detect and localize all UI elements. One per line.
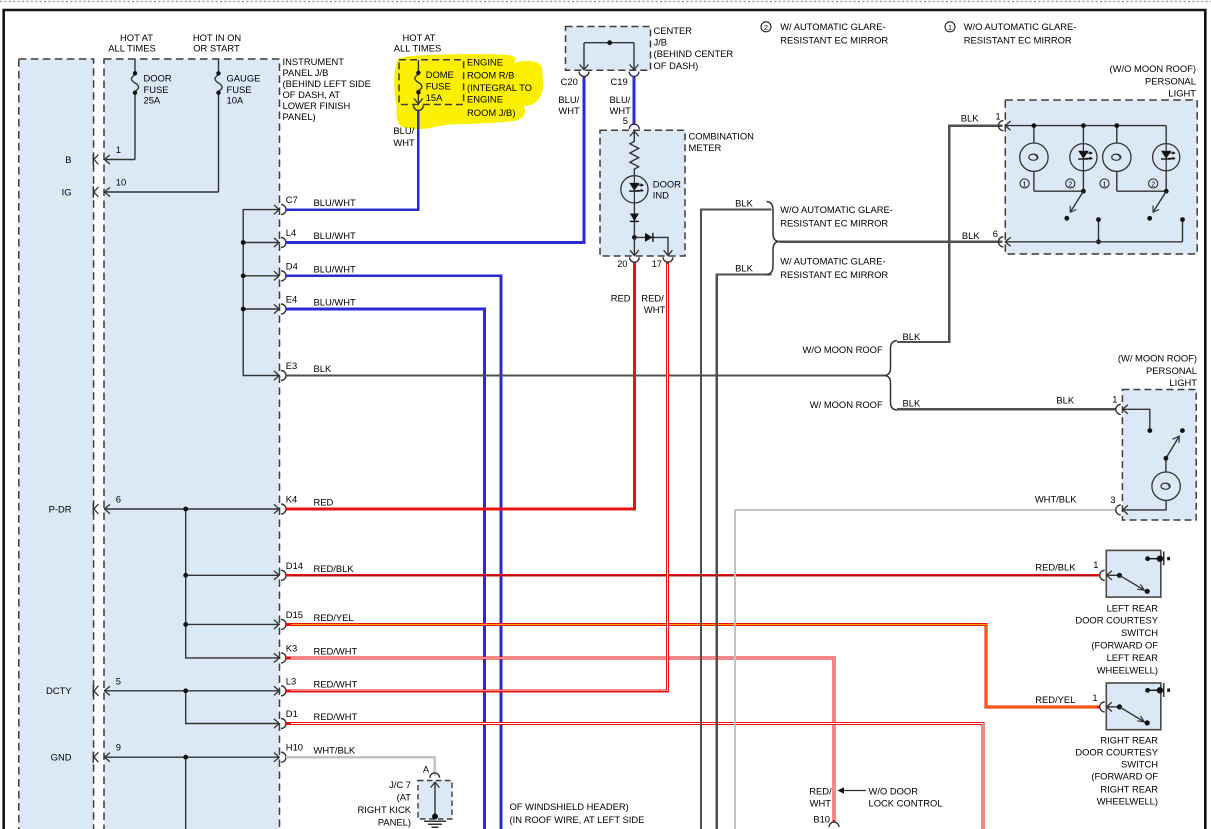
svg-text:(IN ROOF WIRE, AT LEFT SIDE: (IN ROOF WIRE, AT LEFT SIDE bbox=[510, 814, 645, 825]
wire D14 RED/BLK bbox=[286, 574, 1100, 577]
left rear switch internals bbox=[1107, 574, 1120, 576]
label RED/WHT B10 bbox=[809, 786, 832, 825]
svg-text:IND: IND bbox=[653, 190, 669, 201]
LED 2 bbox=[1153, 144, 1180, 171]
svg-text:A: A bbox=[423, 764, 430, 775]
wire DCTY row bbox=[104, 690, 279, 692]
svg-text:E3: E3 bbox=[286, 360, 297, 371]
label OF WINDSHIELD HEADER bbox=[510, 801, 645, 829]
label RED/WHT (pin 17 drop) bbox=[641, 293, 665, 316]
svg-text:1: 1 bbox=[1103, 181, 1107, 188]
svg-text:W/O AUTOMATIC GLARE-: W/O AUTOMATIC GLARE- bbox=[780, 204, 893, 215]
branch wire D14 bbox=[186, 574, 280, 576]
svg-text:RIGHT KICK: RIGHT KICK bbox=[358, 804, 412, 815]
svg-text:C20: C20 bbox=[561, 76, 578, 87]
svg-text:FUSE: FUSE bbox=[426, 81, 451, 92]
svg-text:WHEELWELL): WHEELWELL) bbox=[1097, 796, 1158, 807]
wire BLK w/o EC mirror option bbox=[701, 210, 772, 829]
door contact left rear bbox=[1145, 556, 1150, 561]
contact dot pair 2 bbox=[1147, 216, 1152, 221]
pin D15 connector bbox=[274, 609, 354, 630]
top dotted page edge bbox=[0, 1, 1211, 3]
wire GND row bbox=[104, 756, 279, 758]
junction dot combination meter bbox=[632, 235, 637, 240]
svg-text:RED/WHT: RED/WHT bbox=[314, 645, 358, 656]
svg-text:OF DASH, AT: OF DASH, AT bbox=[283, 89, 341, 100]
door contact right rear bbox=[1145, 688, 1150, 693]
svg-text:WHT: WHT bbox=[558, 105, 580, 116]
junction dot GND bbox=[183, 755, 188, 760]
pin GND connector bbox=[93, 752, 110, 763]
GND down-bus bbox=[185, 757, 187, 829]
switch arm left rear bbox=[1120, 575, 1144, 589]
pin E3 connector bbox=[274, 360, 332, 381]
svg-text:BLU/WHT: BLU/WHT bbox=[314, 197, 356, 208]
wire IG row bbox=[104, 191, 218, 193]
svg-text:10A: 10A bbox=[227, 94, 244, 105]
svg-text:LEFT REAR: LEFT REAR bbox=[1107, 652, 1159, 663]
svg-text:15A: 15A bbox=[426, 92, 443, 103]
svg-text:2: 2 bbox=[764, 23, 768, 32]
svg-text:(FORWARD OF: (FORWARD OF bbox=[1091, 771, 1158, 782]
svg-text:L4: L4 bbox=[286, 227, 296, 238]
label W/ AUTOMATIC GLARE-RESISTANT EC MIRROR bbox=[780, 256, 888, 281]
svg-text:K3: K3 bbox=[286, 642, 297, 653]
bulb 2 bbox=[1103, 143, 1131, 171]
diode (series, pointing down) bbox=[630, 214, 639, 222]
pin K4 connector bbox=[274, 494, 334, 515]
connector pin 17 arc bbox=[663, 257, 673, 262]
svg-text:RED/: RED/ bbox=[641, 293, 664, 304]
LED 1 leads bbox=[1082, 126, 1084, 192]
svg-text:PERSONAL: PERSONAL bbox=[1145, 76, 1196, 87]
svg-text:RED/YEL: RED/YEL bbox=[1035, 694, 1075, 705]
svg-text:2: 2 bbox=[1068, 181, 1072, 188]
svg-text:BLK: BLK bbox=[903, 331, 921, 342]
brace moon roof options bbox=[884, 341, 897, 411]
connector C20 arc bbox=[579, 72, 589, 77]
personal light (w/ moon roof) box bbox=[1122, 390, 1196, 521]
arrow down to dome fuse connector bbox=[414, 98, 423, 103]
svg-text:W/O AUTOMATIC GLARE-: W/O AUTOMATIC GLARE- bbox=[964, 21, 1077, 32]
svg-text:1: 1 bbox=[116, 144, 121, 155]
w/ moon light internal wire pin1 to switch bbox=[1123, 409, 1150, 430]
svg-text:RED/WHT: RED/WHT bbox=[314, 711, 358, 722]
svg-text:2: 2 bbox=[1151, 181, 1155, 188]
svg-text:FUSE: FUSE bbox=[227, 84, 252, 95]
label BLU/WHT under C19 bbox=[610, 94, 632, 116]
connector pin 5 arc bbox=[629, 124, 639, 129]
svg-text:(FORWARD OF: (FORWARD OF bbox=[1091, 640, 1158, 651]
svg-text:LIGHT: LIGHT bbox=[1169, 377, 1197, 388]
svg-text:5: 5 bbox=[623, 115, 628, 126]
svg-text:BLU/: BLU/ bbox=[558, 94, 579, 105]
svg-text:PANEL): PANEL) bbox=[283, 111, 316, 122]
connector A arc bbox=[430, 773, 440, 778]
svg-text:E4: E4 bbox=[286, 294, 297, 305]
bulb lead (w/ moon) bbox=[1165, 458, 1167, 472]
brace EC mirror options bbox=[767, 202, 780, 275]
svg-text:COMBINATION: COMBINATION bbox=[689, 131, 754, 142]
svg-text:D4: D4 bbox=[286, 260, 298, 271]
wire LED to diode bbox=[633, 203, 635, 238]
svg-text:ALL TIMES: ALL TIMES bbox=[108, 43, 155, 54]
resistor in combination meter bbox=[630, 131, 639, 176]
label DOOR IND bbox=[653, 178, 681, 200]
svg-text:WHT/BLK: WHT/BLK bbox=[314, 745, 356, 756]
svg-text:WHEELWELL): WHEELWELL) bbox=[1097, 664, 1158, 675]
svg-text:PANEL J/B: PANEL J/B bbox=[283, 67, 329, 78]
svg-text:DOOR: DOOR bbox=[144, 73, 172, 84]
J/C 7 box bbox=[418, 781, 452, 820]
svg-text:OF WINDSHIELD HEADER): OF WINDSHIELD HEADER) bbox=[510, 801, 629, 812]
svg-text:BLK: BLK bbox=[961, 113, 979, 124]
lamp pair 1 bottom wire bbox=[1034, 190, 1084, 192]
svg-text:RESISTANT EC MIRROR: RESISTANT EC MIRROR bbox=[780, 217, 888, 228]
circled 2 header bbox=[761, 22, 771, 32]
svg-text:IG: IG bbox=[62, 186, 72, 197]
svg-text:METER: METER bbox=[689, 142, 722, 153]
P-DR branch bus bbox=[186, 509, 280, 658]
svg-text:BLU/: BLU/ bbox=[610, 94, 631, 105]
LED DOOR IND bbox=[621, 176, 648, 203]
right rear switch internals bbox=[1107, 706, 1120, 708]
svg-text:(W/ MOON ROOF): (W/ MOON ROOF) bbox=[1118, 353, 1197, 364]
svg-text:SWITCH: SWITCH bbox=[1121, 759, 1158, 770]
junction dot DCTY bbox=[183, 688, 188, 693]
arrow down pin 20 bbox=[630, 250, 639, 255]
pin IG connector bbox=[93, 186, 110, 197]
svg-text:RED/BLK: RED/BLK bbox=[1035, 561, 1076, 572]
pin P-DR connector bbox=[93, 503, 110, 514]
pin E4 connector bbox=[274, 294, 356, 315]
connector C19 arc bbox=[629, 72, 639, 77]
label (W/ MOON ROOF) PERSONAL LIGHT bbox=[1118, 353, 1197, 389]
svg-text:D14: D14 bbox=[286, 560, 303, 571]
wire D4 BLU/WHT bbox=[286, 276, 501, 829]
svg-text:BLK: BLK bbox=[903, 398, 921, 409]
svg-text:ROOM J/B): ROOM J/B) bbox=[467, 107, 515, 118]
personal light top bus bbox=[1006, 125, 1167, 127]
svg-text:BLK: BLK bbox=[314, 363, 332, 374]
svg-text:L3: L3 bbox=[286, 675, 296, 686]
svg-text:OF DASH): OF DASH) bbox=[654, 60, 699, 71]
svg-text:BLU/WHT: BLU/WHT bbox=[314, 230, 356, 241]
svg-text:K4: K4 bbox=[286, 494, 297, 505]
branch wire D15 bbox=[186, 623, 280, 625]
svg-text:20: 20 bbox=[617, 258, 627, 269]
fuse DOME FUSE 15A bbox=[415, 60, 422, 103]
svg-text:BLU/WHT: BLU/WHT bbox=[314, 263, 356, 274]
wire BLK w/o moon roof option to pin 1 bbox=[897, 126, 1003, 342]
label HOT AT ALL TIMES (dome fuse) bbox=[394, 32, 441, 54]
personal light (w/o moon roof) box bbox=[1005, 100, 1197, 254]
svg-text:DCTY: DCTY bbox=[46, 685, 72, 696]
svg-text:OR START: OR START bbox=[193, 43, 240, 54]
svg-text:BLK: BLK bbox=[735, 263, 753, 274]
svg-text:1: 1 bbox=[1023, 181, 1027, 188]
svg-text:(W/O MOON ROOF): (W/O MOON ROOF) bbox=[1110, 63, 1196, 74]
circled 2 (led2) bbox=[1149, 179, 1158, 188]
junction block (left dashed box) bbox=[19, 59, 94, 829]
svg-text:DOOR COURTESY: DOOR COURTESY bbox=[1075, 615, 1158, 626]
svg-text:RED/: RED/ bbox=[809, 786, 832, 797]
yellow highlighter marker blob over ENGINE ROOM R/B area bbox=[394, 54, 543, 128]
wire B row bbox=[104, 159, 135, 161]
svg-text:(AT: (AT bbox=[397, 792, 412, 803]
pin C7 connector bbox=[274, 194, 356, 215]
svg-text:BLU/WHT: BLU/WHT bbox=[314, 297, 356, 308]
pin D14 connector bbox=[274, 560, 354, 581]
center J/B internal bus bbox=[584, 43, 634, 70]
label RIGHT REAR DOOR COURTESY SWITCH bbox=[1075, 735, 1158, 807]
circled 1 (bulb1) bbox=[1020, 179, 1029, 188]
svg-text:RESISTANT EC MIRROR: RESISTANT EC MIRROR bbox=[964, 34, 1072, 45]
label CENTER J/B bbox=[654, 25, 734, 71]
wire L3 RED/WHT (to combination meter pin 17) bbox=[286, 262, 668, 691]
bulb 1 leads bbox=[1033, 126, 1035, 192]
yellow marker lower-left tail bbox=[396, 100, 444, 129]
svg-text:BLK: BLK bbox=[962, 230, 980, 241]
svg-text:CENTER: CENTER bbox=[654, 25, 693, 36]
label (W/O MOON ROOF) PERSONAL LIGHT bbox=[1110, 63, 1197, 99]
branch wire L4 bbox=[243, 242, 279, 244]
svg-text:LIGHT: LIGHT bbox=[1168, 88, 1196, 99]
circled 1 header bbox=[945, 22, 955, 32]
center J/B box bbox=[566, 27, 651, 71]
dome fuse connector arc bbox=[414, 106, 424, 111]
svg-text:PERSONAL: PERSONAL bbox=[1146, 365, 1197, 376]
bulb (w/ moon) bbox=[1152, 472, 1180, 500]
label ENGINE ROOM R/B bbox=[467, 56, 532, 118]
wire D15 RED/YEL bbox=[286, 624, 1100, 707]
label J/C 7 (AT RIGHT KICK PANEL) bbox=[358, 779, 412, 828]
svg-text:6: 6 bbox=[993, 228, 998, 239]
switch pivot dot (w/ moon) bbox=[1147, 428, 1152, 433]
label DOME FUSE 15A bbox=[426, 69, 454, 103]
instrument panel J/B box bbox=[104, 59, 280, 829]
junction dots top bus bbox=[1032, 123, 1037, 128]
svg-text:DOME: DOME bbox=[426, 69, 454, 80]
switch arm right rear bbox=[1120, 707, 1144, 721]
svg-text:WHT: WHT bbox=[393, 137, 415, 148]
svg-text:(BEHIND LEFT SIDE: (BEHIND LEFT SIDE bbox=[283, 78, 371, 89]
pin D1 connector bbox=[274, 708, 358, 729]
arrow down C20 bbox=[580, 64, 589, 69]
svg-text:W/ MOON ROOF: W/ MOON ROOF bbox=[810, 399, 883, 410]
wire E4 BLU/WHT bbox=[286, 309, 485, 829]
pin 1 connector w/o moon light bbox=[998, 121, 1010, 131]
svg-text:SWITCH: SWITCH bbox=[1121, 627, 1158, 638]
circled 1 (bulb2) bbox=[1100, 179, 1109, 188]
switch arm (w/ moon) bbox=[1166, 438, 1179, 459]
label GAUGE FUSE 10A bbox=[227, 73, 261, 106]
svg-text:WHT: WHT bbox=[644, 304, 666, 315]
arrow W/O DOOR LOCK CONTROL callout bbox=[839, 790, 866, 792]
svg-text:ENGINE: ENGINE bbox=[467, 56, 503, 67]
lamp pair 2 bottom wire bbox=[1117, 190, 1166, 192]
svg-text:HOT AT: HOT AT bbox=[120, 32, 153, 43]
wire E3 BLK bbox=[286, 374, 885, 376]
svg-text:W/ AUTOMATIC GLARE-: W/ AUTOMATIC GLARE- bbox=[780, 21, 885, 32]
svg-text:C7: C7 bbox=[286, 194, 298, 205]
svg-text:LOWER FINISH: LOWER FINISH bbox=[283, 100, 351, 111]
label W/O DOOR LOCK CONTROL bbox=[869, 786, 943, 809]
junction dot center J/B bbox=[607, 40, 612, 45]
switch arm pair 1 bbox=[1071, 191, 1083, 211]
left rear door courtesy switch box bbox=[1106, 550, 1161, 597]
wire BLK w/ EC mirror option bbox=[717, 275, 772, 829]
label DOOR FUSE 25A bbox=[144, 73, 172, 106]
wire BLK to personal light pin 6 bbox=[780, 241, 1003, 243]
wire H10 WHT/BLK (to J/C 7 connector A) bbox=[286, 757, 435, 775]
label W/O AUTOMATIC GLARE-RESISTANT EC MIRROR (header) bbox=[964, 21, 1077, 46]
pin L4 connector bbox=[274, 227, 356, 248]
label COMBINATION METER bbox=[689, 131, 754, 153]
pin 6 connector w/o moon light bbox=[998, 237, 1010, 247]
svg-text:17: 17 bbox=[652, 258, 662, 269]
pin K3 connector bbox=[274, 642, 358, 663]
svg-text:1: 1 bbox=[948, 23, 952, 32]
svg-text:1: 1 bbox=[995, 110, 1000, 121]
engine room R/B (dome fuse) box bbox=[399, 60, 464, 105]
svg-text:6: 6 bbox=[116, 494, 121, 505]
svg-text:LOCK CONTROL: LOCK CONTROL bbox=[869, 798, 943, 809]
svg-text:DOOR: DOOR bbox=[653, 178, 681, 189]
wire C19 BLU/WHT drop to pin 5 bbox=[633, 76, 636, 125]
fixed contact stub pair 1 bbox=[1098, 220, 1100, 242]
right rear door courtesy switch box bbox=[1106, 683, 1161, 730]
svg-text:RIGHT REAR: RIGHT REAR bbox=[1100, 735, 1158, 746]
pin L3 connector bbox=[274, 675, 358, 696]
bulb 1 bbox=[1020, 143, 1048, 171]
arrow up pin 5 bbox=[630, 131, 639, 136]
svg-text:RED: RED bbox=[314, 497, 334, 508]
junction dots on bus bbox=[241, 240, 246, 245]
svg-text:INSTRUMENT: INSTRUMENT bbox=[283, 56, 345, 67]
internal bus C7-E3 bbox=[243, 210, 279, 376]
svg-text:RED/WHT: RED/WHT bbox=[314, 678, 358, 689]
diode (branch, pointing right) bbox=[645, 233, 653, 242]
bulb 2 leads bbox=[1116, 126, 1118, 192]
connector pin 20 arc bbox=[630, 257, 640, 262]
svg-text:RED: RED bbox=[611, 293, 631, 304]
switch fixed dot (w/ moon) bbox=[1180, 428, 1185, 433]
LED 2 leads bbox=[1165, 126, 1167, 192]
svg-text:W/O DOOR: W/O DOOR bbox=[869, 786, 919, 797]
svg-text:(BEHIND CENTER: (BEHIND CENTER bbox=[654, 48, 734, 59]
svg-text:GAUGE: GAUGE bbox=[227, 73, 261, 84]
wire L4 BLU/WHT bbox=[286, 76, 584, 243]
svg-text:PANEL): PANEL) bbox=[378, 817, 411, 828]
combination meter box bbox=[600, 130, 685, 256]
pin DCTY connector bbox=[93, 685, 110, 696]
label HOT AT ALL TIMES (door fuse) bbox=[108, 32, 155, 54]
label HOT IN ON OR START bbox=[193, 32, 241, 54]
label BLU/WHT under C20 bbox=[558, 94, 580, 116]
svg-text:B: B bbox=[65, 154, 71, 165]
junction dots P-DR bus bbox=[183, 507, 188, 512]
svg-text:RESISTANT EC MIRROR: RESISTANT EC MIRROR bbox=[780, 269, 888, 280]
DCTY branch bus bbox=[186, 691, 280, 724]
fuse GAUGE FUSE 10A bbox=[215, 59, 222, 192]
arrow down pin 17 bbox=[664, 250, 673, 255]
personal light bottom bus bbox=[1006, 241, 1183, 243]
wire WHT/BLK from pin 3 bbox=[735, 510, 1117, 829]
branch wire to pin 17 bbox=[634, 237, 668, 255]
branch wire D4 bbox=[243, 275, 279, 277]
svg-text:WHT: WHT bbox=[810, 798, 832, 809]
svg-text:RIGHT REAR: RIGHT REAR bbox=[1100, 783, 1158, 794]
svg-text:25A: 25A bbox=[144, 94, 161, 105]
svg-text:10: 10 bbox=[116, 177, 126, 188]
svg-text:1: 1 bbox=[1112, 394, 1117, 405]
svg-text:B10: B10 bbox=[813, 813, 830, 824]
svg-text:C19: C19 bbox=[611, 76, 628, 87]
svg-text:P-DR: P-DR bbox=[49, 503, 72, 514]
label W/ AUTOMATIC GLARE-RESISTANT EC MIRROR (header) bbox=[780, 21, 888, 46]
svg-text:WHT/BLK: WHT/BLK bbox=[1035, 494, 1077, 505]
junction dot pair 2 bbox=[1164, 189, 1169, 194]
circled 2 (led1) bbox=[1066, 179, 1075, 188]
fixed contact stub pair 2 bbox=[1182, 220, 1184, 242]
contact dot pair 1 bbox=[1064, 216, 1069, 221]
svg-text:FUSE: FUSE bbox=[144, 84, 169, 95]
wire K4 RED (to combination meter pin 20) bbox=[286, 262, 635, 509]
svg-text:D15: D15 bbox=[286, 609, 303, 620]
pin H10 connector bbox=[274, 742, 356, 763]
svg-text:H10: H10 bbox=[286, 742, 303, 753]
wire D1 RED/WHT bbox=[286, 724, 983, 829]
svg-text:DOOR COURTESY: DOOR COURTESY bbox=[1075, 747, 1158, 758]
J/C 7 ground riser with arrow bbox=[434, 783, 436, 817]
pin B connector bbox=[93, 154, 110, 165]
svg-text:BLU/: BLU/ bbox=[393, 125, 414, 136]
svg-text:3: 3 bbox=[1110, 494, 1115, 505]
svg-text:LEFT REAR: LEFT REAR bbox=[1107, 603, 1159, 614]
svg-text:(INTEGRAL TO: (INTEGRAL TO bbox=[467, 82, 532, 93]
svg-text:ALL TIMES: ALL TIMES bbox=[394, 43, 441, 54]
svg-text:RESISTANT EC MIRROR: RESISTANT EC MIRROR bbox=[780, 34, 888, 45]
label BLU/WHT (dome drop) bbox=[393, 125, 415, 148]
arrow down C19 bbox=[630, 64, 639, 69]
ground symbol bbox=[424, 821, 446, 827]
bulb to pin 3 wire bbox=[1123, 501, 1166, 510]
connector B10 arc bbox=[829, 822, 839, 827]
branch wire E4 bbox=[243, 308, 279, 310]
pin 1 connector w/ moon light bbox=[1116, 404, 1128, 414]
LED 1 bbox=[1070, 144, 1097, 171]
pin 3 connector w/ moon light bbox=[1116, 505, 1128, 515]
svg-text:ROOM R/B: ROOM R/B bbox=[467, 70, 514, 81]
label INSTRUMENT PANEL J/B bbox=[283, 56, 371, 122]
junction dot pair 1 bbox=[1081, 189, 1086, 194]
svg-text:HOT AT: HOT AT bbox=[403, 32, 436, 43]
svg-text:HOT IN ON: HOT IN ON bbox=[193, 32, 241, 43]
svg-text:5: 5 bbox=[116, 675, 121, 686]
pin 1 connector left rear switch bbox=[1100, 570, 1112, 580]
wire dot to pin 20 bbox=[633, 237, 635, 255]
svg-text:GND: GND bbox=[51, 752, 72, 763]
svg-text:D1: D1 bbox=[286, 708, 298, 719]
pin 1 connector right rear switch bbox=[1100, 702, 1112, 712]
svg-text:1: 1 bbox=[1093, 559, 1098, 570]
svg-text:J/B: J/B bbox=[654, 37, 668, 48]
label W/O AUTOMATIC GLARE-RESISTANT EC MIRROR bbox=[780, 204, 893, 229]
svg-text:RED/BLK: RED/BLK bbox=[314, 563, 355, 574]
label LEFT REAR DOOR COURTESY SWITCH bbox=[1075, 603, 1158, 676]
svg-text:J/C 7: J/C 7 bbox=[389, 779, 411, 790]
